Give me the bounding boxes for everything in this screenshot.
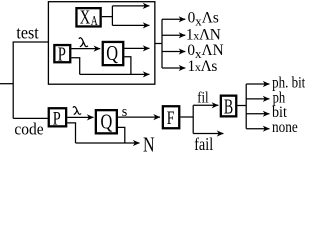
- label lambda (top): [79, 38, 88, 47]
- arrow to 1xAs: [162, 67, 185, 69]
- wire right bus vertical: [161, 19, 163, 68]
- arrow to ph. bit: [246, 83, 269, 85]
- arrow P to Q (bottom): [67, 116, 93, 118]
- arrow fail branch: [193, 133, 223, 135]
- svg-text:P: P: [53, 109, 61, 130]
- label lambda (bottom): [73, 107, 81, 115]
- svg-text:A: A: [91, 14, 99, 29]
- svg-text:P: P: [58, 44, 66, 65]
- svg-text:Q: Q: [106, 41, 118, 65]
- svg-text:X: X: [80, 7, 90, 28]
- arrow X_A lower branch: [112, 24, 149, 26]
- svg-text:code: code: [14, 120, 43, 139]
- arrow to ph: [246, 98, 269, 100]
- arrow to bit: [246, 113, 269, 115]
- wire left vertical junction: [12, 42, 14, 118]
- arrow merged wire to N: [76, 142, 140, 144]
- svg-text:B: B: [224, 95, 233, 119]
- box X_A: [76, 8, 100, 26]
- arrow Q top output: [124, 47, 149, 49]
- outer box (test unit boundary): [48, 2, 154, 85]
- svg-text:1xΛs: 1xΛs: [188, 58, 218, 75]
- arrow P to Q (top): [71, 48, 100, 50]
- arrow merged bottom wire (top section): [80, 73, 150, 75]
- wire fil-fail split vertical: [192, 105, 194, 133]
- arrow to 1xAN: [162, 34, 185, 36]
- wire stub box edge to right bus: [155, 43, 162, 45]
- arrow fil branch to B: [193, 104, 218, 106]
- wire right-bottom bus vertical: [245, 84, 247, 129]
- arrow to none: [246, 128, 269, 130]
- wire B output: [237, 105, 246, 107]
- wire X_A output fork: [102, 6, 113, 17]
- wire main input feed: [0, 83, 13, 85]
- wire test input: [13, 41, 49, 43]
- box P (top): [54, 45, 70, 62]
- wire Q bottom output (bottom section): [118, 127, 125, 143]
- arrow X_A upper branch: [112, 5, 149, 7]
- box B: [221, 96, 236, 117]
- svg-text:Q: Q: [101, 110, 113, 134]
- svg-text:fil: fil: [197, 89, 209, 106]
- svg-text:none: none: [272, 119, 298, 136]
- wire X_A fork down: [111, 17, 113, 26]
- box Q (bottom): [96, 110, 117, 133]
- wire Q bottom output (top section): [124, 57, 130, 75]
- wire code input: [13, 117, 47, 119]
- svg-text:F: F: [167, 108, 175, 129]
- wire F output: [180, 116, 193, 118]
- box P (bottom): [49, 108, 66, 126]
- svg-text:test: test: [16, 22, 38, 42]
- svg-text:fail: fail: [194, 134, 213, 154]
- wire P bottom output (bottom section): [67, 123, 75, 143]
- wire P bottom output (top section): [71, 58, 79, 75]
- box Q (top): [103, 42, 124, 65]
- arrow to 0xAs: [162, 18, 185, 20]
- box F: [163, 106, 179, 128]
- arrow to 0xAN: [162, 51, 185, 53]
- svg-text:N: N: [143, 132, 155, 154]
- arrow s wire Q to F: [118, 116, 160, 118]
